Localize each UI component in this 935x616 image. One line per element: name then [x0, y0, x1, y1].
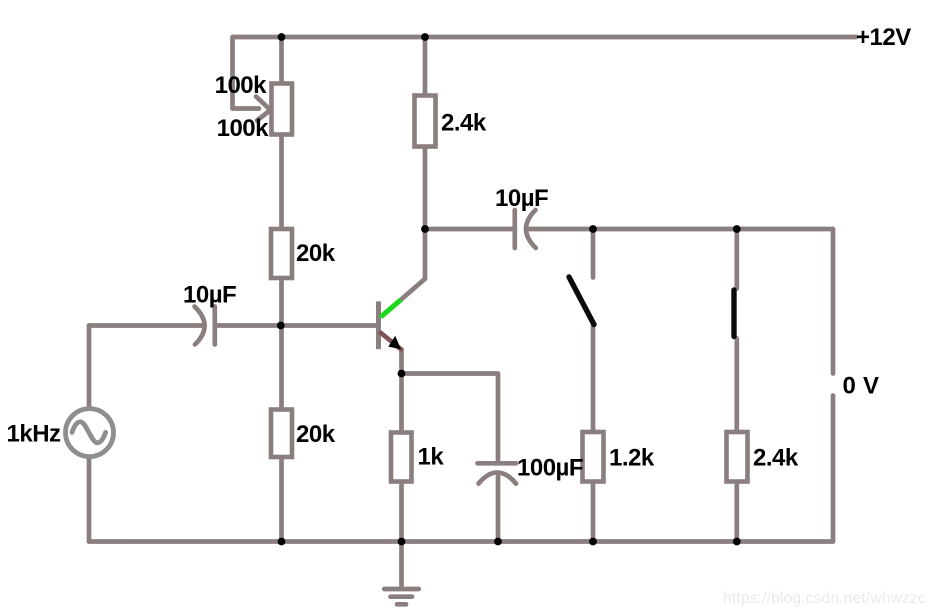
wire ground stem [399, 542, 404, 589]
svg-text:0 V: 0 V [843, 373, 880, 400]
resistor R6 1.2k load [583, 432, 604, 482]
svg-text:100µF: 100µF [517, 455, 583, 482]
junction node bottom rail at 2.4k [733, 538, 741, 546]
junction node top rail at 2.4k [421, 33, 429, 41]
switch S2 closed blade [731, 290, 736, 337]
junction node emitter [398, 370, 406, 378]
wire switch2 bottom to 2.4k [734, 339, 739, 433]
wire emitter node to 1k resistor [399, 374, 404, 434]
wire bottom ground rail [89, 539, 833, 544]
wire base rail input cap to transistor [215, 323, 376, 328]
wire pot top from rail [279, 37, 284, 85]
ground symbol [384, 589, 418, 604]
resistor R4 20k lower bias [271, 410, 292, 458]
junction node bottom rail at 1k [398, 538, 406, 546]
wire 2.4k collector resistor top from rail [423, 37, 428, 96]
svg-text:100k: 100k [215, 72, 268, 99]
junction node base [277, 322, 285, 330]
capacitor C1 10uF input curved plate [195, 307, 205, 345]
wire collector diagonal upper segment [401, 279, 426, 300]
svg-text:20k: 20k [296, 421, 336, 448]
transistor Q1 emitter lead [381, 333, 401, 350]
AC source V1 sine wave [72, 422, 106, 443]
transistor Q1 emitter arrowhead [388, 336, 401, 350]
svg-text:10µF: 10µF [183, 282, 236, 309]
resistor R7 2.4k load [727, 432, 748, 482]
capacitor C3 100uF bypass curved plate [479, 472, 517, 483]
wire 1k bottom to bottom rail [399, 481, 404, 542]
transistor Q1 base bar [376, 301, 381, 349]
wire output cap to switch column rail [529, 227, 737, 232]
potentiometer R1 100k body [272, 84, 293, 135]
capacitor C2 10uF output straight plate [512, 210, 517, 248]
svg-text:1kHz: 1kHz [7, 421, 62, 448]
svg-text:https://blog.csdn.net/whwzzc: https://blog.csdn.net/whwzzc [723, 590, 926, 607]
junction node top rail at pot [278, 33, 286, 41]
junction node bottom rail at bias chain [278, 538, 286, 546]
resistor R5 1k emitter [391, 433, 412, 482]
svg-text:100k: 100k [217, 115, 270, 142]
wire lower 20k to bottom rail [279, 456, 284, 542]
junction node bottom rail at 100uF [494, 538, 502, 546]
wire base rail left of input cap [89, 323, 202, 328]
wire switch1 top stub [591, 229, 596, 278]
wire 2.4k bottom to collector node [423, 146, 428, 229]
svg-text:2.4k: 2.4k [753, 445, 799, 472]
capacitor C2 10uF output curved plate [526, 210, 536, 248]
wire switch1 bottom to 1.2k [591, 326, 596, 433]
junction node bottom rail at 1.2k [589, 538, 597, 546]
svg-text:10µF: 10µF [495, 185, 548, 212]
wire source bottom to bottom rail [87, 459, 92, 542]
wire collector node to output cap [425, 227, 515, 232]
wire 20k bottom to base node [279, 277, 284, 326]
resistor R2 2.4k collector [415, 96, 436, 147]
wire right rail lower to bottom rail [831, 396, 836, 542]
transistor Q1 collector lead green [381, 300, 401, 317]
wire below 100uF cap to bottom rail [496, 476, 501, 542]
wire emitter node to bypass cap branch [402, 374, 499, 464]
wire collector node down to transistor bend [423, 229, 428, 279]
potentiometer wiper arrowhead [256, 97, 271, 121]
svg-text:1.2k: 1.2k [609, 445, 655, 472]
wire 1.2k bottom to rail [591, 481, 596, 542]
wire emitter vertical to emitter node [399, 350, 404, 374]
junction node collector out [421, 225, 429, 233]
capacitor C3 100uF bypass straight plate [478, 461, 517, 466]
svg-text:1k: 1k [418, 444, 445, 471]
wire top +12V rail [233, 37, 857, 109]
wire right 2.4k bottom to rail [734, 481, 739, 542]
capacitor C1 10uF input straight plate [212, 307, 217, 345]
junction node out rail at switch2 [733, 225, 741, 233]
wire switch2 top stub [734, 229, 739, 289]
svg-text:2.4k: 2.4k [441, 110, 487, 137]
wire pot bottom to 20k top [279, 133, 284, 230]
svg-text:+12V: +12V [856, 24, 911, 51]
AC source V1 circle [66, 409, 114, 457]
wire source top to base rail corner [87, 326, 92, 408]
svg-text:20k: 20k [296, 240, 336, 267]
wire base node to lower 20k [279, 326, 284, 411]
junction node out rail at switch1 [589, 225, 597, 233]
resistor R3 20k upper bias [271, 229, 292, 278]
wire potentiometer wiper arm horizontal [233, 106, 260, 111]
switch S1 open blade [569, 277, 594, 325]
wire out rail to right rail corner [737, 229, 833, 374]
